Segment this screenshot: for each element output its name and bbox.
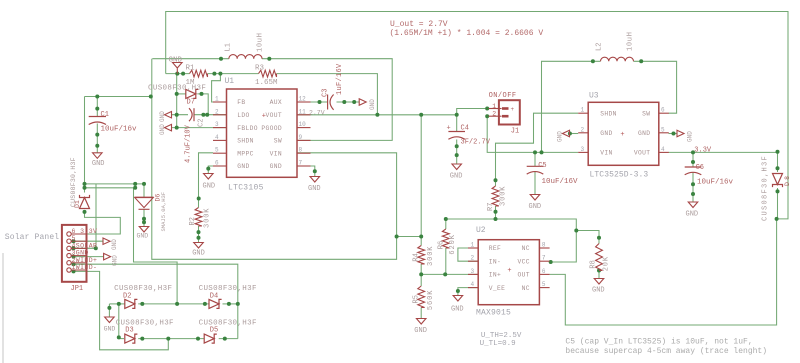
svg-text:R3: R3 (255, 64, 265, 72)
svg-text:1.65M: 1.65M (255, 79, 278, 87)
ground arrow U3 pin5 (677, 130, 684, 137)
svg-text:VOUT: VOUT (265, 112, 282, 119)
svg-text:1: 1 (581, 107, 585, 114)
svg-text:300K: 300K (427, 246, 435, 266)
svg-text:Solar Panel: Solar Panel (5, 233, 60, 242)
svg-text:R5: R5 (412, 295, 420, 303)
svg-text:1: 1 (471, 242, 475, 249)
wire U2 OUT to D8 bottom (550, 219, 777, 325)
svg-text:300K: 300K (204, 208, 212, 228)
wire U3 SHDN net (496, 113, 579, 186)
svg-text:4: 4 (661, 146, 665, 153)
wire harvest line to U1 VIN (152, 97, 397, 260)
svg-text:R7: R7 (487, 203, 495, 211)
ground arrow after C3 (359, 99, 366, 106)
svg-text:FB: FB (237, 99, 245, 106)
svg-text:GND: GND (104, 326, 116, 333)
svg-text:GND: GND (687, 131, 694, 142)
svg-text:3F/2.7V: 3F/2.7V (461, 139, 491, 147)
wire U3 pin5 gnd stub (669, 133, 678, 135)
svg-text:3: 3 (471, 268, 475, 275)
svg-text:+: + (507, 267, 511, 275)
diode D4 (209, 299, 219, 308)
wire C1 top rail (85, 96, 152, 98)
wire J1 pin1 stub (489, 108, 499, 110)
svg-text:2.7V: 2.7V (309, 109, 325, 116)
svg-text:3GND: 3GND (72, 250, 89, 257)
connector JP1 (62, 225, 87, 282)
svg-text:GND: GND (529, 203, 542, 211)
svg-text:R8: R8 (590, 260, 598, 268)
wire R6 column (445, 219, 447, 229)
wire C5 column (534, 152, 536, 166)
ground under C1 (93, 153, 103, 159)
diode D1 (80, 198, 90, 209)
svg-text:OUT: OUT (518, 272, 530, 279)
svg-text:D1: D1 (74, 200, 81, 208)
svg-text:VOUT: VOUT (634, 150, 651, 157)
wire D6 to ground (143, 209, 145, 226)
svg-text:SW: SW (274, 138, 282, 145)
svg-text:GND: GND (237, 163, 249, 170)
svg-text:IN+: IN+ (489, 272, 501, 279)
op-amp U2 MAX9015 (478, 240, 539, 305)
svg-text:U1: U1 (225, 77, 235, 86)
svg-text:C2: C2 (198, 119, 206, 127)
svg-text:(1.65M/1M +1) * 1.004 = 2.6606: (1.65M/1M +1) * 1.004 = 2.6606 V (390, 29, 544, 38)
svg-text:R2: R2 (189, 217, 197, 225)
svg-text:GND: GND (192, 250, 205, 258)
wire U2 V_EE to ground (458, 288, 478, 295)
svg-text:GND: GND (369, 99, 376, 110)
ground arrow LDO (165, 111, 172, 118)
wire bridge bottom row (119, 338, 124, 340)
svg-text:GND: GND (686, 211, 699, 219)
svg-text:5: 5 (542, 281, 546, 288)
ground under D6 (139, 227, 149, 233)
ground bridge left (105, 317, 115, 323)
ground under C6 (688, 202, 698, 208)
wire U2 REF to IN- (458, 248, 478, 261)
ground under U2 V_EE (453, 296, 463, 302)
svg-text:U3: U3 (589, 92, 599, 101)
ground arrow FBLDO (165, 124, 172, 131)
wire bridge left column (118, 304, 120, 339)
capacitor C1 (89, 116, 106, 118)
svg-text:C1: C1 (101, 111, 109, 119)
svg-text:D8: D8 (784, 174, 791, 186)
svg-text:GND: GND (600, 130, 612, 137)
svg-text:12: 12 (299, 96, 307, 103)
svg-text:LDO: LDO (237, 112, 249, 119)
svg-text:R1: R1 (186, 64, 196, 72)
svg-text:GND: GND (159, 111, 166, 122)
wire R8 to ground (598, 271, 600, 279)
ground under R2 (194, 243, 204, 249)
svg-text:GND: GND (169, 56, 183, 64)
wire FB column left of U1 (176, 74, 178, 128)
wire FB top loop (166, 12, 788, 219)
svg-text:MAX9015: MAX9015 (476, 309, 511, 318)
wire VOUT rail (297, 114, 457, 116)
wire R1-R3 segment (208, 73, 259, 75)
diode D5 (204, 334, 214, 343)
svg-text:SHDN: SHDN (237, 138, 254, 145)
capacitor C6 (685, 166, 702, 168)
svg-text:7: 7 (542, 255, 546, 262)
svg-text:VIN: VIN (600, 150, 612, 157)
svg-text:D7: D7 (187, 99, 195, 107)
wire VOUT to J1 pin1 (457, 109, 489, 115)
svg-text:6: 6 (215, 160, 219, 167)
svg-text:IN-: IN- (489, 258, 501, 265)
wire FBLDO row (172, 127, 227, 129)
svg-text:5: 5 (661, 126, 665, 133)
wire U3 pin2 gnd stub (570, 133, 579, 135)
svg-text:D4: D4 (210, 292, 218, 300)
svg-text:SW: SW (642, 110, 650, 117)
svg-text:VCC: VCC (518, 258, 530, 265)
wire D1 to JP1 pin6 (85, 211, 121, 235)
svg-text:10uH: 10uH (627, 31, 635, 51)
connector J1 (499, 100, 520, 124)
svg-text:R4: R4 (412, 253, 420, 261)
svg-text:+: + (262, 112, 266, 120)
svg-text:because supercap 4-5cm away (: because supercap 4-5cm away (trace lengh… (565, 347, 767, 356)
diode D7 (186, 89, 196, 98)
diode D8 (773, 174, 783, 185)
svg-text:U_TL=0.9: U_TL=0.9 (480, 340, 516, 348)
wire wind+ line (74, 264, 238, 338)
frame line left (2, 253, 4, 363)
ground under R5 (416, 319, 426, 325)
svg-text:4: 4 (471, 281, 475, 288)
svg-text:2: 2 (581, 126, 585, 133)
svg-text:10uH: 10uH (257, 32, 265, 52)
op-amp U1 LTC3105 (227, 89, 298, 177)
svg-text:GND: GND (137, 233, 149, 240)
svg-text:GND: GND (451, 306, 464, 314)
svg-text:C3: C3 (322, 89, 330, 97)
resistor R5 (418, 286, 425, 308)
svg-text:1: 1 (215, 96, 219, 103)
svg-text:1WIND-: 1WIND- (72, 264, 98, 271)
svg-text:1uF/16V: 1uF/16V (336, 63, 344, 95)
svg-text:4.7uF/10V: 4.7uF/10V (185, 124, 193, 163)
capacitor C4 (448, 131, 465, 133)
wire L1 net (152, 58, 229, 60)
svg-text:U2: U2 (476, 226, 486, 235)
resistor R3 (259, 70, 277, 77)
svg-text:20K: 20K (603, 256, 611, 271)
svg-text:J1: J1 (511, 127, 519, 135)
wire R4 divider column (420, 115, 422, 246)
wire left rail to D1 (84, 97, 86, 193)
svg-text:9: 9 (299, 134, 303, 141)
svg-text:D5: D5 (210, 327, 218, 335)
wire R7 to comparator rail (495, 206, 497, 219)
svg-text:2WIND+: 2WIND+ (72, 257, 98, 264)
resistor R2 (195, 208, 202, 227)
svg-text:D3: D3 (125, 327, 133, 335)
wire FB to R1 (166, 73, 190, 75)
ground under C4 (452, 164, 462, 170)
svg-text:11: 11 (299, 108, 307, 115)
wire D7 row (177, 93, 186, 95)
svg-text:10uF/16V: 10uF/16V (542, 178, 579, 186)
svg-text:ON/OFF: ON/OFF (489, 92, 517, 100)
diode D2 (125, 299, 135, 308)
svg-text:C4: C4 (461, 125, 469, 133)
svg-text:REF: REF (489, 245, 501, 252)
svg-text:L2: L2 (596, 43, 604, 51)
capacitor C3 (327, 95, 329, 110)
svg-text:GND: GND (203, 183, 216, 191)
svg-text:LTC3105: LTC3105 (228, 183, 264, 192)
svg-text:620K: 620K (449, 234, 457, 254)
svg-text:3: 3 (581, 146, 585, 153)
resistor R4 (418, 246, 425, 265)
wire U1 pin7 to ground (297, 166, 315, 176)
svg-text:U_TH=2.5V: U_TH=2.5V (481, 332, 522, 340)
svg-text:10: 10 (299, 121, 307, 128)
wire U1 MPPC to R2 (199, 153, 214, 208)
wire AUX to C3 (297, 101, 327, 103)
svg-text:GND: GND (112, 255, 119, 266)
wire C4 column (456, 115, 458, 131)
ground arrow JP1 pin3 (104, 253, 111, 260)
wire C1 node to D6 (85, 184, 145, 197)
svg-text:GND: GND (270, 163, 282, 170)
wire U1 pin6 to ground (208, 166, 213, 173)
wire JP1 pin3 to gnd arrow (74, 256, 104, 258)
svg-text:CUS08F30,H3F: CUS08F30,H3F (70, 157, 77, 207)
wire parallel branch to bridge (85, 188, 178, 304)
svg-text:SHDN: SHDN (600, 110, 617, 117)
svg-text:CUS08F30,H3F: CUS08F30,H3F (199, 320, 257, 328)
svg-text:GND: GND (450, 173, 463, 181)
svg-text:NC: NC (522, 245, 530, 252)
svg-text:10uF/16v: 10uF/16v (101, 126, 138, 134)
svg-text:SMAJ5.0A,H3F: SMAJ5.0A,H3F (160, 192, 167, 232)
svg-text:10uF/16v: 10uF/16v (697, 178, 734, 186)
wire bridge left gnd (108, 304, 110, 317)
wire R3 right to VOUT rail (277, 74, 378, 115)
svg-text:LTC3525D-3.3: LTC3525D-3.3 (590, 170, 649, 179)
ground arrow JP1 pin5 (103, 238, 110, 245)
svg-text:JP1: JP1 (71, 285, 84, 293)
svg-text:C5 (cap V_In LTC3525) is 10uF,: C5 (cap V_In LTC3525) is 10uF, not 1uF, (565, 337, 752, 346)
wire R2 to ground (198, 226, 200, 242)
svg-text:GND: GND (159, 124, 166, 135)
svg-text:4: 4 (215, 134, 219, 141)
svg-text:8: 8 (542, 242, 546, 249)
svg-text:+: + (511, 106, 515, 113)
svg-text:GND: GND (92, 160, 105, 168)
svg-text:GND: GND (557, 131, 564, 142)
svg-text:6: 6 (542, 268, 546, 275)
wire U2 IN+ row (421, 273, 478, 275)
svg-text:3: 3 (215, 121, 219, 128)
svg-text:CUS08F30,H3F: CUS08F30,H3F (148, 85, 206, 93)
inductor L2 (601, 57, 634, 61)
resistor R6 (442, 229, 449, 248)
svg-text:5: 5 (215, 147, 219, 154)
svg-text:6: 6 (661, 107, 665, 114)
wire VIN branch to R4 (397, 236, 422, 238)
svg-text:4SOLAR: 4SOLAR (72, 242, 98, 249)
svg-text:D2: D2 (123, 292, 131, 300)
svg-text:8: 8 (299, 147, 303, 154)
svg-text:U_out = 2.7V: U_out = 2.7V (390, 20, 448, 29)
resistor R7 (492, 186, 499, 206)
svg-text:2: 2 (215, 108, 219, 115)
svg-text:300K: 300K (500, 186, 508, 206)
svg-text:PGOOD: PGOOD (261, 125, 282, 132)
wire L2 right to U3 SW (634, 61, 677, 113)
wire J1 pin2 to U3 VIN (487, 116, 578, 152)
svg-text:GND: GND (592, 287, 605, 295)
svg-text:GND: GND (111, 239, 118, 250)
svg-text:GND: GND (308, 185, 321, 193)
wire bridge top row (109, 303, 124, 305)
svg-text:2: 2 (492, 111, 496, 118)
wire D8 column (777, 152, 779, 172)
wire C6 column (692, 152, 694, 167)
ground under U1 pin7 (310, 177, 320, 183)
wire JP1 solar pin up (74, 184, 97, 248)
svg-text:R6: R6 (438, 241, 446, 249)
diode D6 (134, 196, 153, 198)
svg-text:5: 5 (72, 235, 76, 242)
capacitor C5 (527, 165, 544, 167)
wire rail to U2 VCC (550, 231, 577, 263)
svg-text:MPPC: MPPC (237, 150, 254, 157)
wire wind- line (74, 271, 169, 349)
wire U3 VOUT 3.3V rail (669, 151, 778, 153)
wire comparator rail (446, 219, 599, 244)
svg-text:+: + (620, 131, 624, 139)
ground arrow U3 pin2 (563, 130, 570, 137)
diode D3 (125, 334, 135, 343)
wire JP1 pin5 to gnd arrow (74, 240, 104, 242)
svg-text:GND: GND (638, 130, 650, 137)
svg-text:L1: L1 (225, 43, 233, 51)
svg-text:VIN: VIN (270, 150, 282, 157)
svg-text:AUX: AUX (270, 99, 282, 106)
resistor R8 (596, 244, 603, 271)
svg-text:FBLDO: FBLDO (237, 125, 258, 132)
ground under C5 (530, 195, 540, 201)
wire C1 column (96, 97, 98, 117)
wire LDO row with C2 (172, 114, 189, 116)
svg-text:CUS08F30,H3F: CUS08F30,H3F (199, 285, 257, 293)
svg-text:2: 2 (471, 255, 475, 262)
svg-text:CUS08F30,H3F: CUS08F30,H3F (762, 155, 770, 221)
junction dots (219, 57, 223, 61)
svg-text:1: 1 (492, 103, 496, 110)
svg-text:560K: 560K (427, 290, 435, 310)
svg-text:V_EE: V_EE (489, 285, 506, 292)
svg-text:+: + (447, 125, 451, 133)
inductor L1 (229, 55, 262, 59)
svg-text:3.3V: 3.3V (694, 147, 712, 155)
svg-text:6 3.3V: 6 3.3V (72, 228, 98, 235)
capacitor C2 (193, 108, 195, 121)
svg-text:C5: C5 (538, 162, 546, 170)
wire FB junction to U1 pin1 (212, 74, 227, 102)
svg-text:7: 7 (299, 160, 303, 167)
resistor R1 (190, 70, 208, 77)
ground under U1 pin6 (204, 174, 214, 180)
ground under R8 (594, 279, 604, 285)
wire C3 to ground arrow (337, 101, 360, 103)
op-amp U3 LTC3525 (588, 102, 659, 165)
wire L2 left column (542, 61, 601, 152)
svg-text:C6: C6 (696, 164, 704, 172)
svg-text:GND: GND (414, 327, 427, 335)
svg-text:NC: NC (522, 285, 530, 292)
